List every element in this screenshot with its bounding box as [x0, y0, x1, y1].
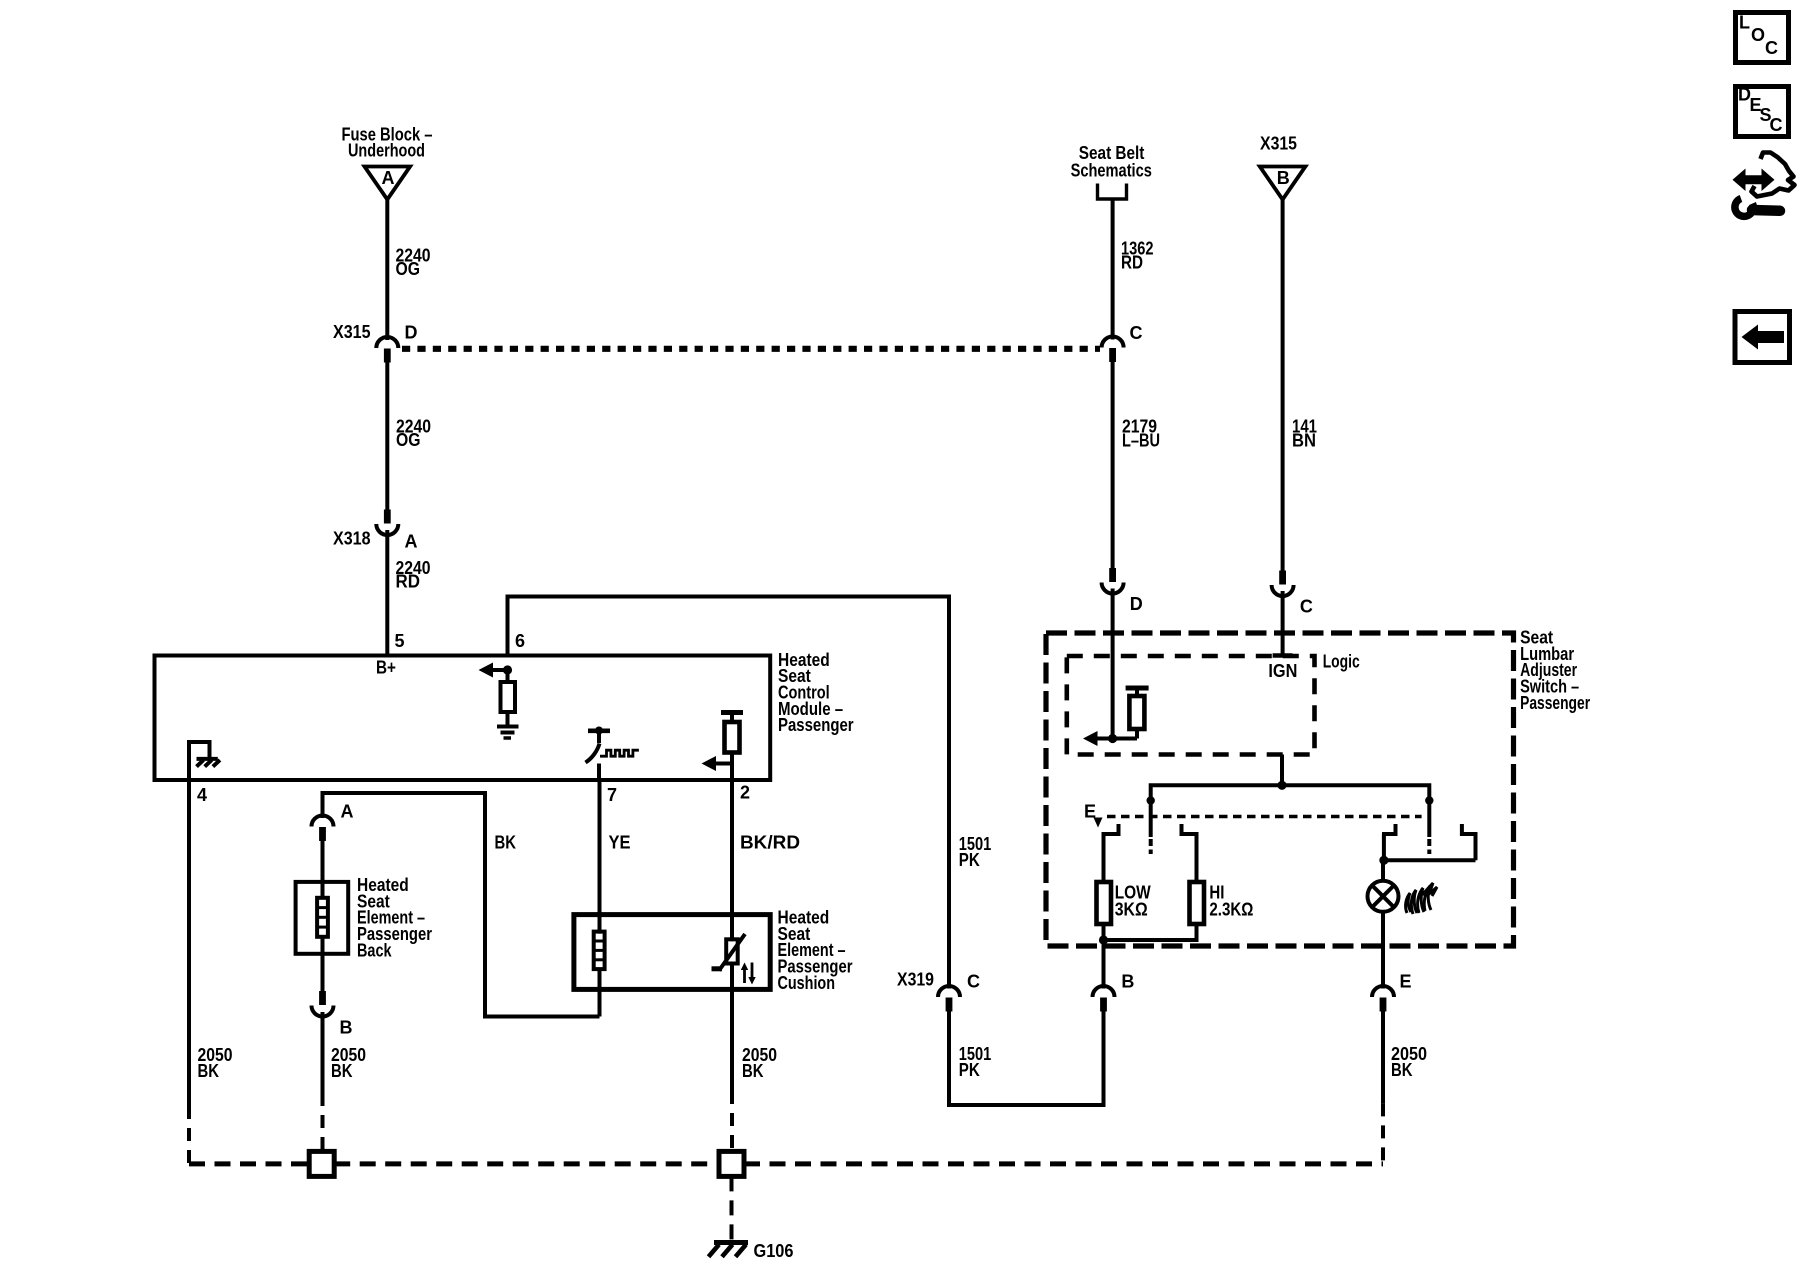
- svg-text:5: 5: [395, 631, 405, 651]
- label 2050 BK (middle): [331, 1045, 366, 1081]
- svg-text:B: B: [1121, 972, 1134, 992]
- svg-text:OG: OG: [396, 430, 421, 450]
- svg-text:L–BU: L–BU: [1122, 431, 1160, 451]
- wire C to IGN terminal: [1281, 591, 1285, 656]
- label 141 BN: [1292, 417, 1317, 451]
- svg-text:BK: BK: [198, 1061, 220, 1081]
- svg-text:PK: PK: [959, 1060, 980, 1080]
- svg-text:RD: RD: [396, 572, 421, 592]
- svg-text:C: C: [1300, 597, 1313, 617]
- svg-text:B+: B+: [376, 658, 396, 678]
- wire junction to lamp: [1381, 860, 1385, 881]
- wire LOW/HI common join: [1102, 924, 1199, 940]
- internal temperature/PWM switch (pin 7): [586, 727, 639, 779]
- mechanical coupling line (dashed): [1107, 815, 1422, 818]
- left switch movable contact (open): [1149, 817, 1153, 838]
- wire YE (module pin 7 to cushion element): [598, 780, 602, 934]
- label 2240 OG: [396, 246, 431, 280]
- internal resistor (pin 6): [506, 670, 510, 682]
- splice box (back element drop): [309, 1151, 334, 1176]
- label 2179 L-BU: [1122, 417, 1160, 451]
- wire D into logic: [1111, 589, 1115, 739]
- dashed wire splice to G106: [730, 1176, 734, 1240]
- svg-text:BK/RD: BK/RD: [740, 833, 800, 853]
- right switch fixed contact (outer): [1460, 824, 1478, 860]
- internal wire to ground (pin 6): [506, 712, 510, 725]
- wire 2050 BK (module pin 4 down): [187, 780, 191, 1106]
- logic internal output arrow: [1097, 737, 1137, 741]
- right switch movable contact (open): [1427, 817, 1431, 838]
- junction node (logic D wire): [1108, 734, 1117, 743]
- connector X315 pin D: [376, 337, 398, 348]
- svg-text:L: L: [1739, 13, 1750, 33]
- svg-text:BK: BK: [1391, 1060, 1413, 1080]
- svg-text:G106: G106: [754, 1241, 794, 1261]
- wire 2050 BK (back element down): [321, 1012, 325, 1093]
- connector A (back element): [312, 816, 334, 827]
- svg-text:D: D: [1130, 594, 1143, 614]
- svg-text:Passenger: Passenger: [778, 715, 854, 735]
- label 1501 PK (lower): [959, 1044, 992, 1080]
- svg-text:2.3KΩ: 2.3KΩ: [1209, 900, 1253, 920]
- switch feed horizontal wire: [1151, 785, 1430, 816]
- wire 2179 L-BU (C to D): [1111, 362, 1115, 569]
- label Seat Belt Schematics: [1071, 143, 1152, 181]
- svg-text:IGN: IGN: [1268, 661, 1297, 681]
- connector C (X315 to lumbar switch): [1279, 571, 1286, 585]
- wire logic to switch common: [1280, 755, 1284, 786]
- junction node (lamp top): [1379, 856, 1388, 865]
- wire 2240 OG (X315 D to X318 A): [385, 362, 389, 510]
- junction node (LOW/HI join): [1099, 935, 1108, 944]
- ground G106 symbol: [709, 1243, 749, 1257]
- lumbar scribble icon: [1406, 883, 1437, 914]
- svg-text:X318: X318: [333, 529, 371, 549]
- svg-text:4: 4: [197, 785, 207, 805]
- svg-text:A: A: [382, 168, 395, 188]
- internal resistor with supply (pin 2): [702, 713, 744, 779]
- label HI 2.3KOhm: [1209, 883, 1253, 920]
- svg-text:X319: X319: [897, 970, 934, 990]
- wire BK/RD (module pin 2 to thermistor): [730, 780, 734, 941]
- svg-text:6: 6: [515, 631, 525, 651]
- dashed wire 2050 BK to ground bus: [187, 1106, 191, 1164]
- wire 2240 RD (X318 A to module pin 5): [385, 530, 389, 656]
- Seat Lumbar Adjuster Switch box (dashed): [1046, 633, 1514, 946]
- heating element symbol (cushion): [594, 932, 605, 970]
- junction node (switch common): [1277, 781, 1286, 790]
- connector X319 pin C: [938, 986, 960, 997]
- thermistor symbol (cushion): [712, 934, 746, 971]
- power triangle B (X315): [1260, 167, 1306, 200]
- heating element symbol (back): [317, 898, 328, 937]
- svg-text:A: A: [405, 532, 418, 552]
- internal output arrow (pin 6): [486, 668, 508, 672]
- wire BK/RD below thermistor: [730, 964, 734, 1092]
- svg-text:X315: X315: [1260, 134, 1297, 154]
- label 2050 BK (cushion): [742, 1045, 777, 1081]
- svg-text:2: 2: [740, 783, 750, 803]
- ground bus (dashed) segment right: [744, 1161, 1383, 1166]
- svg-text:C: C: [1770, 115, 1783, 135]
- ground symbol (module internal): [497, 727, 519, 739]
- indicator lamp: [1368, 881, 1399, 912]
- power triangle A (from Fuse Block - Underhood): [365, 167, 411, 200]
- junction node (right pole): [1425, 796, 1433, 804]
- svg-text:Cushion: Cushion: [778, 973, 836, 993]
- svg-text:7: 7: [607, 785, 617, 805]
- svg-text:Schematics: Schematics: [1071, 160, 1152, 180]
- logic internal resistor with supply bar: [1126, 688, 1149, 739]
- DESC button: [1736, 85, 1789, 137]
- svg-text:C: C: [967, 972, 980, 992]
- IGN terminal bar: [1273, 653, 1293, 658]
- connector B (lumbar switch): [1093, 986, 1115, 997]
- svg-text:3KΩ: 3KΩ: [1115, 900, 1148, 920]
- svg-text:A: A: [341, 802, 354, 822]
- label 2240 RD: [396, 558, 431, 592]
- back arrow button: [1735, 312, 1790, 363]
- dashed wire 2050 BK to splice: [321, 1093, 325, 1151]
- dashed wire 2050 BK to splice (cushion): [730, 1091, 734, 1151]
- wire join to connector B: [1102, 940, 1106, 989]
- svg-text:BN: BN: [1292, 431, 1316, 451]
- label 1362 RD: [1121, 239, 1154, 273]
- wire lamp to connector E: [1381, 912, 1385, 989]
- chassis ground (module internal, pin 4): [197, 759, 220, 767]
- wire 1362 RD (bracket to connector C): [1111, 199, 1115, 340]
- Logic box (dashed): [1067, 656, 1315, 755]
- resistor HI 2.3K: [1190, 882, 1205, 924]
- svg-text:BK: BK: [331, 1061, 353, 1081]
- svg-text:RD: RD: [1121, 253, 1143, 273]
- svg-text:BK: BK: [742, 1061, 764, 1081]
- wiring hotspot icon (double arrow, outline scribble, wrench): [1733, 153, 1795, 217]
- label Seat Lumbar Adjuster Switch - Passenger: [1520, 628, 1590, 713]
- Heated Seat Element - Passenger Cushion box: [574, 915, 770, 990]
- svg-text:OG: OG: [396, 259, 421, 279]
- label E with direction arrow: [1084, 802, 1103, 828]
- svg-text:C: C: [1765, 38, 1778, 58]
- resistor LOW 3K: [1097, 882, 1112, 924]
- LOC button: [1736, 13, 1789, 63]
- svg-text:Underhood: Underhood: [348, 141, 425, 161]
- connector C (seat belt harness): [1102, 337, 1124, 348]
- svg-text:Logic: Logic: [1323, 651, 1360, 671]
- svg-text:BK: BK: [495, 833, 517, 853]
- label LOW 3KOhm: [1115, 883, 1151, 920]
- dotted harness link (X315 D to seat belt C): [402, 346, 1100, 352]
- wire 1501 PK (module pin 6 up and over to X319 C): [508, 597, 950, 989]
- wire back element to connector B: [321, 937, 325, 991]
- label 2240 OG (second): [396, 417, 431, 451]
- svg-text:PK: PK: [959, 850, 980, 870]
- wire contacts to lamp: [1384, 858, 1476, 862]
- internal wire (pin 4 to chassis ground): [189, 742, 210, 778]
- seat belt schematic bracket: [1098, 184, 1127, 200]
- svg-text:YE: YE: [609, 833, 631, 853]
- junction node (left pole): [1147, 796, 1155, 804]
- label 1501 PK (upper): [959, 834, 992, 870]
- connector B (back element): [319, 991, 326, 1005]
- dashed wire 2050 BK (E to ground bus): [1381, 1103, 1385, 1164]
- Heated Seat Element - Passenger Back box: [296, 882, 349, 954]
- wire 2050 BK (connector E down): [1381, 1011, 1385, 1103]
- wire 2240 OG (triangle A to X315 D): [385, 200, 389, 341]
- temperature arrows: [741, 963, 756, 985]
- splice box (G106 drop): [719, 1151, 744, 1176]
- connector X318 pin A: [384, 510, 391, 524]
- ground bus (dashed) segment left: [189, 1161, 309, 1166]
- label Heated Seat Element - Passenger Back: [357, 875, 432, 960]
- right switch fixed contact (lamp side): [1382, 824, 1398, 860]
- svg-text:D: D: [405, 323, 418, 343]
- svg-text:B: B: [340, 1018, 353, 1038]
- Heated Seat Control Module box: [155, 656, 771, 781]
- svg-text:C: C: [1130, 323, 1143, 343]
- connector E (lumbar switch): [1372, 986, 1394, 997]
- svg-text:Passenger: Passenger: [1520, 693, 1590, 713]
- svg-text:X315: X315: [333, 322, 371, 342]
- wire 141 BN (triangle B to connector C): [1281, 200, 1285, 571]
- ground bus (dashed) segment middle: [334, 1161, 719, 1166]
- svg-text:Back: Back: [357, 940, 392, 960]
- wire connector A to back element: [321, 841, 325, 898]
- wire cushion element to BK return: [598, 969, 602, 1017]
- svg-text:B: B: [1277, 168, 1290, 188]
- label 2050 BK (left): [198, 1045, 233, 1081]
- wire 1501 PK (X319 C to lumbar B): [949, 1011, 1104, 1105]
- label 2050 BK (E side): [1391, 1044, 1427, 1080]
- svg-text:O: O: [1751, 25, 1765, 45]
- junction node (pin 6 internal): [503, 665, 512, 674]
- left switch fixed contact (LOW): [1102, 824, 1121, 882]
- svg-text:E: E: [1400, 972, 1412, 992]
- left switch fixed contact (HI): [1180, 824, 1199, 882]
- module label Heated Seat Control Module - Passenger: [778, 650, 854, 735]
- label Fuse Block - Underhood: [342, 124, 433, 160]
- label Heated Seat Element - Passenger Cushion: [778, 908, 853, 993]
- connector D (to lumbar switch): [1109, 568, 1116, 582]
- wire BK (back element A up-over to cushion element return): [323, 793, 600, 1017]
